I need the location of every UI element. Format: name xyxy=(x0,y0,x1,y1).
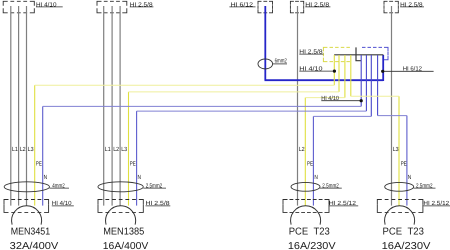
svg-text:PE: PE xyxy=(401,160,407,167)
label HI 2.5/8 (W4) xyxy=(305,1,330,8)
wire N run to X3 xyxy=(313,115,371,117)
ellipse cable marker X4 xyxy=(385,182,414,191)
svg-text:N: N xyxy=(314,174,318,181)
wire X4 L3 xyxy=(391,6,393,206)
svg-text:PCE T23: PCE T23 xyxy=(383,226,425,237)
label HI 6/12 (W3) xyxy=(229,1,255,8)
label 6mm2 xyxy=(273,58,288,65)
socket dome X1 xyxy=(12,206,42,225)
label HI 2.5/8 (W2) xyxy=(130,1,154,8)
wire X1 L3 xyxy=(26,6,28,206)
cable sheath W4 HI 2.5/8 xyxy=(290,1,303,13)
socket dome X3 xyxy=(291,206,321,225)
PE riser to X4 xyxy=(350,55,352,96)
label HI 4/10 (W1) xyxy=(36,1,63,8)
N riser to X1 xyxy=(360,55,362,106)
svg-text:PE: PE xyxy=(307,160,313,167)
svg-text:32A/400V: 32A/400V xyxy=(10,241,59,250)
label 2.5mm2 (X4) xyxy=(414,183,436,190)
wire X2 N vertical xyxy=(136,111,138,206)
label 4mm2 (X1) xyxy=(50,183,70,190)
svg-text:16A/230V: 16A/230V xyxy=(382,241,431,250)
socket body dashed box X4 xyxy=(377,200,423,213)
wire X1 PE vertical xyxy=(34,85,36,205)
PEN link vertical xyxy=(356,47,361,60)
wire PE run to X1 xyxy=(35,84,335,86)
cable sheath W3 HI 6/12 supply xyxy=(258,1,273,13)
ellipse cable marker 6mm2 xyxy=(258,59,273,69)
label HI 4/10 (X1) xyxy=(52,200,74,207)
cable sheath W1 HI 4/10 xyxy=(3,1,34,13)
wire X2 L1 xyxy=(103,6,105,206)
label HI 2.5/12 (X4) xyxy=(423,200,450,207)
label 2.5mm2 (X3) xyxy=(320,183,342,190)
svg-text:L2: L2 xyxy=(113,146,120,153)
svg-text:PE: PE xyxy=(36,160,42,167)
label HI 6/12 leader to supply riser xyxy=(381,66,434,73)
socket body dashed box X1 xyxy=(4,200,49,213)
wire N run to X2 xyxy=(137,110,367,112)
PE terminal dashed box xyxy=(323,47,350,61)
N riser to X4 xyxy=(377,55,379,116)
wire N run to X1 xyxy=(43,105,362,107)
wire X3 L2 xyxy=(297,6,299,206)
terminal bar xyxy=(334,54,383,56)
svg-text:L2: L2 xyxy=(20,146,27,153)
cable sheath W5 HI 2.5/8 xyxy=(384,1,398,13)
label 2.5mm2 (X2) xyxy=(143,183,166,190)
wire X1 N vertical xyxy=(42,106,44,205)
N riser to X3 xyxy=(370,55,372,116)
ellipse cable marker X1 xyxy=(4,182,49,192)
label HI 2.5/8 (W5) xyxy=(400,1,424,8)
svg-text:L3: L3 xyxy=(393,146,400,153)
wire N run to X4 xyxy=(378,115,407,117)
socket dome X4 xyxy=(385,206,415,225)
label HI 4/10 leader to PE riser X1 xyxy=(299,65,336,72)
wire PE run to X4 xyxy=(351,95,399,97)
ellipse cable marker X2 xyxy=(98,182,143,192)
wire supply N riser to N-bar xyxy=(382,55,384,81)
wire X1 L1 xyxy=(10,6,12,206)
svg-text:L1: L1 xyxy=(105,146,112,153)
svg-text:L3: L3 xyxy=(121,146,128,153)
wire X2 L3 xyxy=(119,6,121,206)
label HI 2.5/8 (X2) xyxy=(146,200,171,207)
socket body dashed box X3 xyxy=(283,200,329,213)
svg-text:N: N xyxy=(408,174,412,181)
wire X2 L2 xyxy=(111,6,113,206)
wire X1 L2 xyxy=(18,6,20,206)
wire PE run to X3 xyxy=(305,97,345,99)
svg-text:PE: PE xyxy=(130,160,136,167)
N riser to X2 xyxy=(365,55,367,111)
svg-text:N: N xyxy=(138,174,142,181)
svg-text:N: N xyxy=(44,174,48,181)
N terminal dashed box xyxy=(362,47,388,59)
wire PE run to X2 xyxy=(129,91,340,93)
svg-text:PCE T23: PCE T23 xyxy=(289,226,331,237)
cable sheath W2 HI 2.5/8 xyxy=(97,1,127,13)
svg-text:L3: L3 xyxy=(28,146,35,153)
svg-text:16A/230V: 16A/230V xyxy=(288,241,336,250)
socket dome X2 xyxy=(106,206,136,225)
wire X2 PE vertical xyxy=(128,92,130,206)
svg-text:L2: L2 xyxy=(299,146,306,153)
PE riser to X3 xyxy=(344,55,346,98)
svg-text:L1: L1 xyxy=(12,146,19,153)
svg-text:MEN3451: MEN3451 xyxy=(11,226,51,237)
socket body dashed box X2 xyxy=(98,200,143,213)
wire X3 PE vertical xyxy=(304,98,306,206)
ellipse cable marker X3 xyxy=(291,182,320,191)
wire X4 N vertical xyxy=(406,116,408,206)
svg-text:16A/400V: 16A/400V xyxy=(103,241,149,250)
wire supply N horizontal run xyxy=(265,79,384,81)
PE riser to X1 xyxy=(333,55,335,85)
svg-text:MEN1385: MEN1385 xyxy=(103,226,145,237)
wire supply N drop (6mm2) xyxy=(264,6,266,80)
wire X4 PE vertical xyxy=(398,96,400,205)
label HI 2.5/8 (PE bar) xyxy=(299,48,323,55)
label HI 2.5/12 (X3) xyxy=(329,200,358,207)
PE riser to X2 xyxy=(338,55,340,92)
label HI 4/10 leader to N riser X1 xyxy=(321,95,363,102)
wire X3 N vertical xyxy=(312,116,314,205)
